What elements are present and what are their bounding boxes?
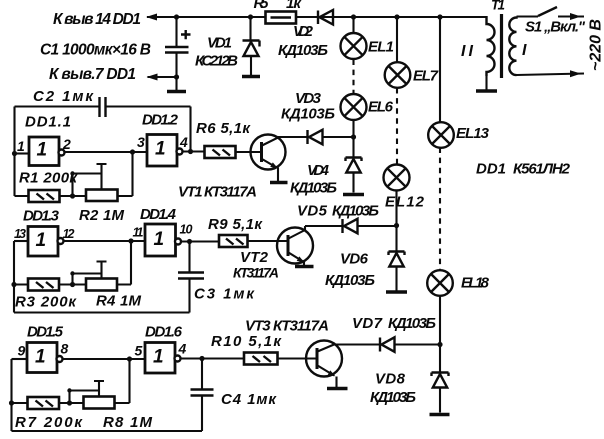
lamp EL18 <box>427 270 453 296</box>
trimmer R2 <box>86 190 118 202</box>
transistor VT2 <box>277 228 313 264</box>
lamp EL6 <box>341 94 367 120</box>
diode VD8 <box>432 373 449 377</box>
arrow to pin 14 <box>146 14 157 21</box>
node C2 feedback junction <box>188 149 193 154</box>
svg-text:EL1: EL1 <box>368 39 394 56</box>
wire DD1.3 out to DD1.4 in <box>64 240 146 242</box>
svg-text:10: 10 <box>180 223 193 237</box>
op-amp gate DD1.1 <box>29 137 59 166</box>
op-amp gate DD1.5 <box>27 343 57 373</box>
svg-text:~220 В: ~220 В <box>588 19 604 71</box>
ground under VT3 <box>327 387 348 390</box>
svg-text:R4 1М: R4 1М <box>96 293 142 310</box>
ground under winding II <box>476 89 497 92</box>
capacitor C4 <box>201 359 203 390</box>
svg-text:EL18: EL18 <box>461 275 490 292</box>
node R2 top junction <box>130 149 135 154</box>
wire cell1 left rail <box>13 107 15 197</box>
svg-text:4: 4 <box>179 134 188 150</box>
capacitor C2 <box>100 97 106 117</box>
wire DD1.1 out to DD1.2 in <box>65 151 148 153</box>
svg-text:S1 „Вкл.": S1 „Вкл." <box>525 19 586 36</box>
node cell1 input <box>12 151 17 156</box>
svg-text:1: 1 <box>154 229 165 250</box>
svg-text:VD2: VD2 <box>293 23 314 40</box>
svg-text:1к: 1к <box>286 0 302 12</box>
lamp EL1 <box>341 33 367 59</box>
op-amp gate DD1.4 <box>145 224 176 256</box>
wire dashed EL7-EL12 <box>396 88 398 165</box>
svg-text:КД103Б: КД103Б <box>281 106 335 123</box>
svg-text:DD1.5: DD1.5 <box>27 324 64 341</box>
lamp EL7 <box>385 62 411 88</box>
svg-text:R2 1М: R2 1М <box>79 207 125 224</box>
svg-text:13: 13 <box>14 227 26 241</box>
node lamp chain 3 top <box>437 14 442 19</box>
wire pin1 <box>15 152 30 154</box>
svg-text:9: 9 <box>18 343 26 359</box>
svg-text:4: 4 <box>178 341 187 357</box>
node VD1 junction <box>248 14 253 19</box>
svg-text:R10 5,1к: R10 5,1к <box>211 333 282 350</box>
svg-text:К выв.7 DD1: К выв.7 DD1 <box>49 66 136 83</box>
svg-text:КД103Б: КД103Б <box>290 180 337 197</box>
op-amp gate DD1.2 <box>147 135 177 167</box>
svg-text:EL6: EL6 <box>368 99 394 116</box>
svg-text:I: I <box>522 42 527 59</box>
node chain2 VD5 junction <box>394 223 399 228</box>
svg-text:1: 1 <box>155 139 166 160</box>
transformer T1 winding II <box>487 16 495 76</box>
wire dashed EL13-EL18 <box>439 148 441 271</box>
capacitor C1 <box>175 17 177 46</box>
wire cell3 bottom R row <box>12 359 130 403</box>
svg-text:EL13: EL13 <box>456 125 490 142</box>
ground under VD1 <box>242 75 260 78</box>
wire chain1 top <box>352 17 354 34</box>
svg-text:R5: R5 <box>254 0 270 12</box>
ground under VD4 <box>343 193 364 196</box>
diode VD7 with wire from VT3 collector <box>334 343 440 345</box>
wire cell3 left rail <box>10 359 12 431</box>
svg-text:VD4: VD4 <box>307 162 330 179</box>
arrow to pin 7 <box>147 74 158 81</box>
resistor R1 <box>29 190 60 202</box>
svg-text:1: 1 <box>35 347 46 368</box>
svg-text:КС212В: КС212В <box>195 53 238 70</box>
svg-text:Т1: Т1 <box>491 0 505 13</box>
svg-text:КД103Б: КД103Б <box>278 42 328 59</box>
svg-text:DD1.6: DD1.6 <box>145 324 183 341</box>
svg-text:DD1: DD1 <box>476 161 506 178</box>
svg-text:EL7: EL7 <box>413 68 439 85</box>
wire mains top with arrow <box>558 15 584 17</box>
wire top supply rail <box>147 16 487 18</box>
wire to pin 7 <box>148 76 177 78</box>
switch S1 <box>517 15 539 17</box>
wire cell2 bottom R row <box>14 241 131 285</box>
wire DD1.2 out <box>183 150 205 152</box>
wire chain1 to VD4 <box>352 121 354 158</box>
ground under VT1 <box>270 181 288 184</box>
node R8 top junction <box>127 356 132 361</box>
svg-text:VD7: VD7 <box>352 315 383 332</box>
transistor VT1 <box>251 135 286 170</box>
svg-text:VT1 КТ3117А: VT1 КТ3117А <box>178 184 257 201</box>
resistor R3 <box>28 279 59 291</box>
svg-text:3: 3 <box>137 134 145 150</box>
op-amp gate DD1.6 <box>145 343 175 374</box>
node DD1.4 output junction <box>187 239 192 244</box>
wire chain2 top <box>396 17 398 63</box>
svg-text:1: 1 <box>36 230 47 251</box>
wire pin13 <box>14 240 28 242</box>
resistor R6 <box>205 146 236 158</box>
svg-text:DD1.2: DD1.2 <box>142 112 179 129</box>
wire pin9 <box>12 358 28 360</box>
ground under C1 <box>167 90 186 93</box>
svg-text:С2 1мк: С2 1мк <box>33 88 94 105</box>
svg-text:VD1: VD1 <box>207 35 232 52</box>
svg-text:КТ3117А: КТ3117А <box>233 265 279 281</box>
node C1 bottom junction <box>174 74 179 79</box>
op-amp gate DD1.3 <box>28 227 58 257</box>
svg-text:EL12: EL12 <box>385 194 425 211</box>
wire mains bottom with arrow <box>517 74 585 76</box>
wire cell1 bottom <box>15 152 133 196</box>
svg-text:5: 5 <box>135 343 143 359</box>
svg-text:VD5: VD5 <box>297 203 328 220</box>
wire R10 to VT3 base <box>278 357 318 359</box>
wire chain3 to VD8 <box>439 296 441 373</box>
svg-text:VT3 КТ3117А: VT3 КТ3117А <box>245 318 329 335</box>
svg-text:12: 12 <box>63 227 75 241</box>
svg-text:R3 200к: R3 200к <box>15 294 77 311</box>
svg-text:КД103Б: КД103Б <box>332 203 379 220</box>
wire chain2 to VD6 <box>395 191 397 252</box>
node chain3 VD7 junction <box>437 342 442 347</box>
svg-text:VD8: VD8 <box>375 371 406 388</box>
zener VD1 <box>249 17 251 40</box>
wire cell2 left rail <box>13 241 15 313</box>
resistor R9 <box>219 235 248 247</box>
node lamp chain 2 top <box>394 14 399 19</box>
svg-text:DD1.4: DD1.4 <box>140 206 177 223</box>
node rail-R7 junction <box>9 400 14 405</box>
diode VD4 <box>346 158 362 162</box>
trimmer R4 <box>86 279 117 291</box>
transistor VT3 <box>306 341 342 377</box>
svg-text:К выв 14 DD1: К выв 14 DD1 <box>53 11 141 28</box>
node R4 top junction <box>128 238 133 243</box>
node chain1 VD3 junction <box>351 134 356 139</box>
node R1-R2 junction <box>70 193 75 198</box>
wire dashed EL1-EL6 <box>352 60 354 94</box>
svg-text:КД103Б: КД103Б <box>388 315 436 332</box>
resistor R5 <box>266 12 297 24</box>
svg-text:2: 2 <box>62 136 71 152</box>
transformer T1 winding I <box>509 17 516 76</box>
svg-text:DD1.3: DD1.3 <box>23 208 60 225</box>
svg-text:VT2: VT2 <box>240 249 269 266</box>
diode VD2 <box>317 11 319 25</box>
wire chain3 top <box>439 17 441 123</box>
node rail-R3 junction <box>11 282 16 287</box>
wire R9 to VT2 base <box>248 240 289 242</box>
node C1 top junction <box>174 14 179 19</box>
wire cell1 feedback through C2 <box>15 107 191 152</box>
svg-text:VD6: VD6 <box>340 251 369 268</box>
node DD1.6 output junction <box>199 356 204 361</box>
wire R6 to VT1 base <box>236 151 262 153</box>
ground under VD8 <box>430 413 450 416</box>
lamp EL13 <box>428 122 454 148</box>
svg-text:1: 1 <box>153 347 164 368</box>
svg-text:КД103Б: КД103Б <box>370 389 416 406</box>
svg-text:К561ЛН2: К561ЛН2 <box>513 161 571 178</box>
wire DD1.6 out to R10 <box>181 357 245 359</box>
svg-text:R1 200к: R1 200к <box>19 170 78 187</box>
svg-text:С3 1мк: С3 1мк <box>194 286 255 303</box>
ground under VT2 <box>295 265 314 268</box>
svg-text:DD1.1: DD1.1 <box>25 114 71 131</box>
resistor R10 <box>244 353 278 365</box>
ground under VD6 <box>386 290 407 293</box>
transformer T1 core <box>500 14 503 78</box>
svg-text:R8 1М: R8 1М <box>103 414 153 431</box>
node R3-R4 junction <box>70 282 75 287</box>
wire DD1.4 out to R9 <box>181 240 219 242</box>
node R7-R8 junction <box>67 400 72 405</box>
capacitor C3 <box>188 242 190 273</box>
svg-text:VD3: VD3 <box>295 90 322 107</box>
diode VD5 with wire from VT2 collector <box>305 225 397 227</box>
diode VD3 with wire from VT1 collector <box>278 136 354 138</box>
svg-text:КД103Б: КД103Б <box>325 272 375 289</box>
node lamp chain 1 top <box>351 14 356 19</box>
trimmer R8 <box>84 397 115 409</box>
lamp EL12 <box>384 165 410 191</box>
svg-text:1: 1 <box>37 140 48 161</box>
wire DD1.5 out to DD1.6 in <box>63 358 146 360</box>
resistor R7 <box>28 397 60 409</box>
svg-text:R6 5,1к: R6 5,1к <box>196 120 251 137</box>
svg-text:8: 8 <box>61 341 69 357</box>
svg-text:11: 11 <box>133 226 144 240</box>
svg-text:С1 1000мк×16 В: С1 1000мк×16 В <box>40 42 151 59</box>
svg-text:1: 1 <box>17 138 25 154</box>
diode VD6 <box>389 252 405 256</box>
svg-text:С4 1мк: С4 1мк <box>221 391 277 408</box>
svg-text:R9 5,1к: R9 5,1к <box>208 216 263 233</box>
